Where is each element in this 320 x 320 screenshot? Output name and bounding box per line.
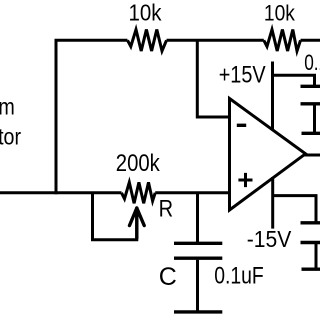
potentiometer R 200k (rheostat body): [122, 182, 156, 203]
capacitor C plate 2: [174, 257, 222, 260]
capacitor bypass top plate 2: [301, 102, 320, 105]
svg-text:C: C: [159, 263, 177, 291]
wire: input node up to R1: [56, 40, 128, 194]
wire: input line from left edge to potentiometer: [0, 191, 122, 194]
capacitor bypass bottom plate 1: [301, 221, 320, 224]
svg-text:R: R: [159, 196, 174, 223]
ground: [174, 310, 222, 313]
wire: R1 to R2: [167, 39, 264, 42]
ground (top bypass): [302, 132, 320, 135]
wire: feedback tap down to inverting input: [197, 40, 228, 117]
op-amp U1 triangle: [230, 99, 306, 211]
potentiometer wiper arrow: [130, 208, 145, 238]
svg-text:0.1uF: 0.1uF: [214, 263, 264, 290]
svg-text:0.1uF: 0.1uF: [304, 50, 320, 75]
wire: capacitor C to ground: [196, 260, 199, 311]
op-amp U1 inverting input symbol: [237, 124, 246, 127]
wire: top bypass cap to ground: [313, 105, 316, 133]
capacitor bypass top plate 1: [301, 85, 320, 88]
capacitor C plate 1: [174, 242, 222, 245]
op-amp U1 non-inverting input symbol: [238, 173, 252, 187]
svg-text:generator: generator: [0, 124, 21, 150]
svg-text:10k: 10k: [129, 0, 162, 26]
svg-text:200k: 200k: [116, 150, 161, 177]
wire: bottom bypass cap to ground: [315, 244, 318, 269]
wire: wiper return loop: [93, 193, 137, 240]
svg-text:+15V: +15V: [219, 61, 266, 88]
wire: pot to non-inverting input: [155, 191, 228, 194]
wire: op-amp output: [304, 154, 320, 157]
svg-text:-15V: -15V: [247, 226, 292, 252]
svg-text:From: From: [0, 94, 15, 120]
wire: -15V supply stub: [271, 177, 274, 229]
wire: +15V supply stub: [271, 62, 274, 130]
wire: +15V rail to top bypass cap: [273, 75, 315, 85]
resistor R2 10k: [264, 30, 301, 52]
capacitor bypass bottom plate 2: [301, 241, 320, 244]
wire: -15V rail to bottom bypass cap: [273, 196, 316, 222]
svg-text:10k: 10k: [264, 0, 296, 25]
resistor R1 10k: [128, 30, 167, 52]
ground (bottom bypass): [302, 268, 320, 271]
wire: non-inverting node down to capacitor C: [196, 193, 199, 242]
wire: R2 to right edge: [301, 39, 320, 42]
